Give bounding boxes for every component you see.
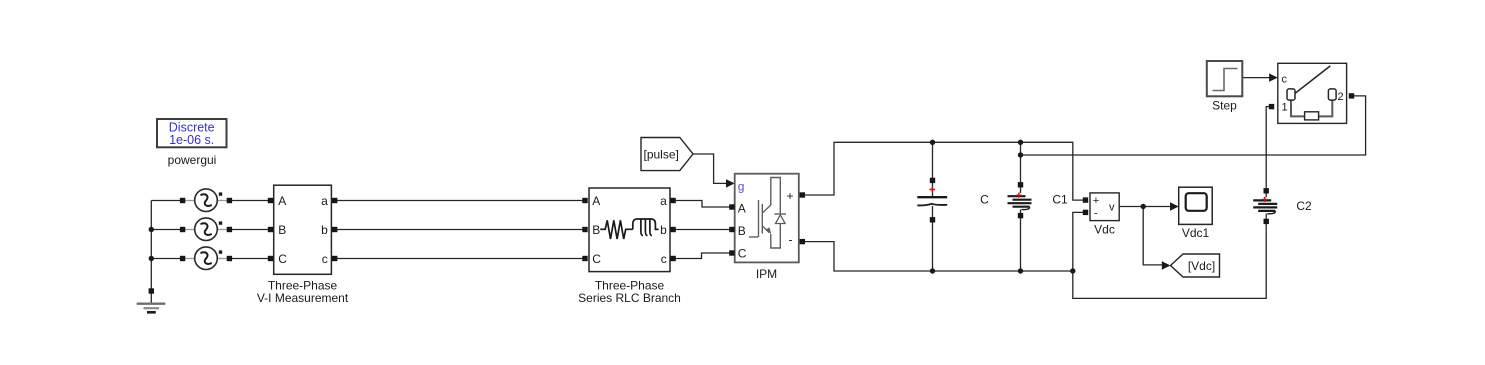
svg-text:1: 1 xyxy=(1282,102,1288,114)
svg-text:V-I Measurement: V-I Measurement xyxy=(257,291,349,305)
svg-text:Step: Step xyxy=(1212,99,1237,113)
svg-text:a: a xyxy=(660,194,667,208)
svg-text:-: - xyxy=(1094,208,1098,220)
svg-text:v: v xyxy=(1109,202,1115,214)
svg-text:C: C xyxy=(980,193,989,207)
svg-text:C2: C2 xyxy=(1296,199,1312,213)
svg-text:C: C xyxy=(592,252,601,266)
svg-text:B: B xyxy=(278,223,286,237)
svg-text:b: b xyxy=(660,223,667,237)
svg-text:Series RLC Branch: Series RLC Branch xyxy=(578,291,681,305)
svg-text:1e-06 s.: 1e-06 s. xyxy=(169,133,214,147)
svg-text:c: c xyxy=(322,252,328,266)
svg-text:c: c xyxy=(661,252,667,266)
svg-text:Vdc: Vdc xyxy=(1094,223,1115,237)
svg-text:B: B xyxy=(738,224,746,238)
svg-text:+: + xyxy=(1093,195,1099,207)
svg-text:g: g xyxy=(738,180,745,194)
svg-text:[Vdc]: [Vdc] xyxy=(1188,259,1215,273)
svg-text:a: a xyxy=(321,194,328,208)
svg-text:2: 2 xyxy=(1338,91,1344,103)
svg-text:C: C xyxy=(738,247,747,261)
svg-text:b: b xyxy=(321,223,328,237)
svg-text:-: - xyxy=(789,233,793,247)
svg-text:A: A xyxy=(278,194,286,208)
svg-text:+: + xyxy=(787,189,794,203)
svg-text:C1: C1 xyxy=(1052,193,1068,207)
svg-text:A: A xyxy=(738,201,746,215)
svg-text:[pulse]: [pulse] xyxy=(644,147,679,161)
svg-text:powergui: powergui xyxy=(168,153,217,167)
svg-text:C: C xyxy=(278,252,287,266)
svg-text:A: A xyxy=(592,194,600,208)
svg-text:B: B xyxy=(592,223,600,237)
svg-text:IPM: IPM xyxy=(756,267,777,281)
svg-text:c: c xyxy=(1282,74,1288,86)
svg-text:Vdc1: Vdc1 xyxy=(1182,226,1210,240)
